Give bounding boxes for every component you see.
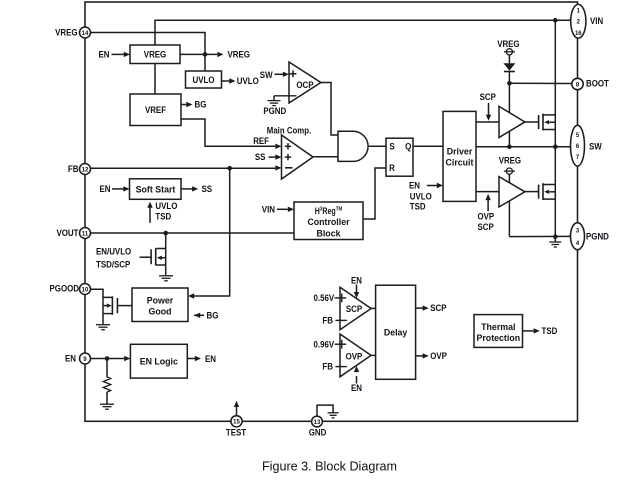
svg-text:TSD/SCP: TSD/SCP (96, 260, 130, 270)
svg-text:Driver: Driver (447, 147, 473, 157)
svg-text:FB: FB (322, 316, 333, 326)
svg-text:OVP: OVP (430, 351, 447, 361)
svg-text:Power: Power (147, 295, 174, 305)
svg-text:OCP: OCP (296, 80, 313, 90)
svg-text:SCP: SCP (430, 303, 446, 313)
svg-text:12: 12 (82, 166, 89, 173)
svg-text:Block: Block (317, 228, 342, 238)
svg-text:2: 2 (577, 19, 580, 26)
svg-text:EN Logic: EN Logic (140, 357, 178, 367)
svg-text:SW: SW (589, 141, 602, 151)
svg-text:Main Comp.: Main Comp. (267, 125, 311, 135)
svg-text:VREG: VREG (228, 50, 250, 60)
svg-text:BG: BG (207, 310, 219, 320)
svg-text:15: 15 (233, 419, 240, 426)
svg-text:EN: EN (351, 383, 362, 393)
svg-text:VREG: VREG (144, 49, 166, 59)
svg-text:16: 16 (575, 30, 582, 37)
svg-text:UVLO: UVLO (193, 75, 215, 85)
svg-text:0.56V: 0.56V (314, 293, 335, 303)
svg-text:EN: EN (99, 50, 110, 60)
svg-text:REF: REF (253, 136, 269, 146)
svg-text:UVLO: UVLO (237, 76, 259, 86)
svg-text:Thermal: Thermal (481, 322, 515, 332)
svg-text:S: S (389, 142, 394, 152)
svg-text:9: 9 (83, 356, 86, 363)
svg-text:UVLO: UVLO (155, 201, 177, 211)
svg-text:TEST: TEST (226, 427, 247, 437)
svg-text:SW: SW (260, 70, 273, 80)
svg-text:VIN: VIN (590, 16, 603, 26)
svg-text:VREG: VREG (497, 39, 519, 49)
svg-text:TSD: TSD (410, 202, 426, 212)
svg-text:13: 13 (314, 419, 321, 426)
svg-text:Q: Q (405, 142, 411, 152)
svg-text:0.96V: 0.96V (314, 339, 335, 349)
svg-text:FB: FB (68, 164, 79, 174)
svg-text:VREG: VREG (499, 156, 521, 166)
svg-text:Controller: Controller (307, 217, 350, 227)
svg-text:14: 14 (82, 30, 89, 37)
svg-text:VREG: VREG (55, 28, 77, 38)
svg-text:Circuit: Circuit (446, 158, 474, 168)
svg-text:BOOT: BOOT (586, 78, 609, 88)
svg-text:10: 10 (82, 286, 89, 293)
svg-text:R: R (389, 163, 395, 173)
svg-text:3: 3 (576, 228, 579, 235)
svg-text:FB: FB (322, 362, 333, 372)
svg-text:SCP: SCP (346, 304, 362, 314)
svg-text:Good: Good (149, 307, 172, 317)
svg-text:SS: SS (255, 152, 266, 162)
svg-text:TSD: TSD (542, 326, 558, 336)
svg-text:PGND: PGND (263, 106, 286, 116)
svg-text:EN: EN (100, 184, 111, 194)
svg-text:OVP: OVP (346, 352, 363, 362)
svg-text:7: 7 (576, 154, 579, 161)
svg-text:EN: EN (351, 275, 362, 285)
svg-text:5: 5 (576, 132, 579, 139)
svg-text:PGND: PGND (586, 231, 609, 241)
svg-text:4: 4 (576, 240, 579, 247)
svg-text:SS: SS (202, 184, 213, 194)
svg-text:VIN: VIN (262, 204, 275, 214)
svg-text:6: 6 (576, 143, 579, 150)
svg-text:8: 8 (576, 81, 579, 88)
svg-text:TSD: TSD (155, 212, 171, 222)
svg-text:Delay: Delay (384, 328, 408, 338)
svg-text:SCP: SCP (478, 222, 494, 232)
svg-text:UVLO: UVLO (410, 191, 432, 201)
svg-text:EN: EN (65, 354, 76, 364)
svg-text:EN: EN (205, 354, 216, 364)
svg-text:Protection: Protection (477, 333, 521, 343)
svg-text:EN/UVLO: EN/UVLO (96, 246, 131, 256)
svg-text:1: 1 (577, 7, 580, 14)
svg-text:VREF: VREF (145, 105, 167, 115)
svg-text:PGOOD: PGOOD (50, 284, 80, 294)
svg-text:SCP: SCP (480, 92, 496, 102)
svg-text:Soft Start: Soft Start (136, 184, 176, 194)
svg-text:BG: BG (195, 100, 207, 110)
svg-text:EN: EN (409, 181, 420, 191)
svg-text:VOUT: VOUT (57, 228, 79, 238)
svg-text:GND: GND (309, 428, 327, 438)
svg-text:11: 11 (82, 230, 88, 237)
svg-text:Figure 3. Block Diagram: Figure 3. Block Diagram (262, 460, 397, 474)
svg-text:OVP: OVP (478, 212, 495, 222)
